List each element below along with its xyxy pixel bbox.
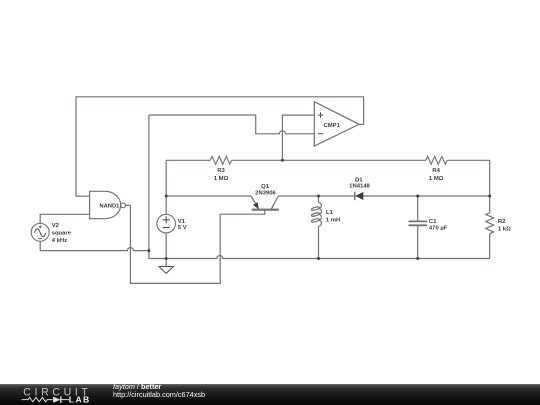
svg-text:V2: V2 [52,223,60,229]
wire ground rail [149,256,490,259]
svg-text:4 kHz: 4 kHz [52,238,67,244]
svg-text:5 V: 5 V [178,225,187,231]
inductor L1 [311,203,321,227]
wire V2 minus [40,241,149,250]
wire top feedback loop CMP1 out to NAND in1 [126,204,131,206]
resistor R3 [210,156,231,164]
CircuitLab logo [0,384,110,405]
capacitor C1 [409,221,428,225]
node R2 top [488,195,491,198]
svg-text:1 MΩ: 1 MΩ [214,176,229,182]
footer text [113,383,161,392]
voltage source V2 square 4kHz [31,223,72,244]
resistor R2 [486,213,494,234]
svg-text:1 kΩ: 1 kΩ [498,226,511,232]
node C1 top [416,195,419,198]
node V1 top branch [165,195,168,198]
svg-text:1N4148: 1N4148 [349,184,370,190]
wire Q1 collector row [278,195,489,197]
svg-text:Q1: Q1 [261,184,270,190]
voltage source V1 5V [157,214,187,233]
svg-text:C1: C1 [429,219,437,225]
NAND gate NAND1 [90,191,126,218]
node junction dots [147,159,491,260]
node L1 top [317,195,320,198]
svg-text:V1: V1 [178,219,186,225]
node ground junction [165,257,168,260]
svg-text:1 MΩ: 1 MΩ [429,176,444,182]
wire V2 plus to NAND in2 [40,214,89,223]
svg-text:R4: R4 [432,168,440,174]
svg-text:470 µF: 470 µF [429,226,448,232]
ground [159,259,173,274]
svg-text:NAND1: NAND1 [99,204,120,210]
node V2 minus junction [147,249,150,252]
node L1 bottom [317,257,320,260]
footer bar [0,384,540,405]
wire CMP1 minus input net [149,115,314,134]
svg-text:R3: R3 [217,168,225,174]
wire Q1 base to NAND1 output [130,205,264,283]
wire vertical to ground rail [148,115,150,259]
op-amp U1 comparator CMP1 [314,102,359,146]
svg-text:1 mH: 1 mH [326,217,340,223]
svg-text:D1: D1 [355,177,363,183]
diode D1 1N4148 [349,177,370,200]
node CMP1 plus on R3 row [281,159,284,162]
svg-text:2N3906: 2N3906 [255,191,276,197]
wire C1 column [417,196,419,259]
wire CMP1 plus input net [282,115,314,160]
wire Q1 emitter row [166,195,251,197]
wire L1 column [318,196,320,259]
wire V1 column [165,160,167,258]
svg-text:CMP1: CMP1 [324,123,341,129]
svg-text:square: square [52,231,72,237]
svg-text:R2: R2 [498,219,506,225]
node C1 bottom [416,257,419,260]
svg-text:LAB: LAB [69,394,91,404]
resistor R4 [426,156,447,164]
svg-text:L1: L1 [326,210,334,216]
wire R3 R4 row [166,160,490,258]
transistor Q1 2N3906 [251,184,279,210]
